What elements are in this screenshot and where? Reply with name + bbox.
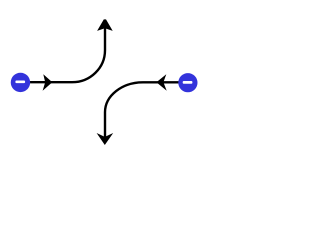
arrowhead left-pointing on right wire (156, 74, 166, 91)
arrowhead up at top of left trajectory (97, 19, 113, 31)
wire right trajectory (curves down) (105, 82, 179, 138)
left electron (negative charge) (11, 73, 30, 92)
arrowhead right-pointing on left wire (43, 74, 53, 91)
right electron (negative charge) (178, 73, 197, 92)
wire left trajectory (curves up) (30, 27, 106, 83)
arrowhead down at bottom of right trajectory (97, 133, 114, 145)
